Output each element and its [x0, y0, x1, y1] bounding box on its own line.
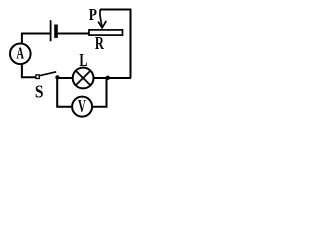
switch S contact square — [36, 75, 39, 79]
svg-text:P: P — [89, 5, 97, 24]
wire: lamp row — [56, 77, 131, 79]
svg-text:L: L — [79, 50, 87, 70]
switch S blade — [40, 72, 57, 76]
junction node left (lamp/voltmeter) — [55, 75, 59, 79]
svg-text:V: V — [78, 96, 86, 116]
lamp X cross stroke 1 — [76, 71, 91, 86]
wire: ammeter down to bottom row, right to switch — [22, 64, 36, 78]
svg-text:A: A — [16, 44, 24, 63]
wire: voltmeter branch left — [57, 79, 72, 107]
resistor R box — [89, 30, 123, 35]
battery long plate — [50, 20, 52, 41]
svg-text:R: R — [95, 33, 104, 53]
rheostat slider arrowhead — [98, 21, 106, 28]
lamp X cross stroke 2 — [76, 71, 91, 86]
junction node right (lamp/voltmeter) — [106, 76, 110, 80]
rheostat slider arrow shaft — [100, 10, 102, 27]
wire: voltmeter branch right — [92, 79, 107, 107]
lamp L circle — [73, 68, 94, 89]
wire: top-right from slider corner to right side — [100, 10, 131, 79]
battery short thick plate — [54, 25, 58, 39]
voltmeter V circle — [72, 97, 92, 117]
wire: battery to resistor — [58, 33, 89, 35]
svg-text:S: S — [35, 81, 44, 101]
ammeter A circle — [10, 44, 31, 65]
wire: ammeter riser + top-left horizontal to battery — [22, 34, 50, 45]
